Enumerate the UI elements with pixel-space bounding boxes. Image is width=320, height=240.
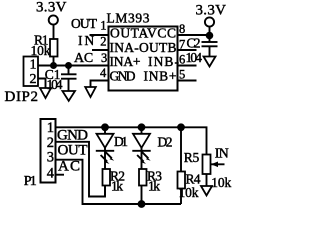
svg-text:IN: IN [78, 33, 95, 48]
wire pin2 stub [92, 49, 109, 51]
svg-text:1: 1 [100, 18, 106, 32]
node label OUT pin1 [71, 16, 107, 32]
svg-text:1: 1 [30, 58, 37, 73]
svg-text:3.3V: 3.3V [36, 0, 67, 15]
power label 3.3V left [36, 0, 67, 15]
node junction R4 rail [177, 123, 185, 131]
svg-text:1: 1 [47, 120, 54, 136]
svg-text:OUT: OUT [58, 143, 88, 159]
node junction D2 rail [138, 123, 146, 131]
pin 7 number [179, 38, 185, 52]
wire 3.3V to R1 [53, 25, 55, 39]
svg-text:IN: IN [215, 147, 229, 162]
svg-text:3: 3 [101, 51, 107, 65]
wire pin1 stub [90, 34, 109, 36]
svg-text:104: 104 [47, 77, 63, 92]
wire DIP2 pin2 [38, 79, 46, 89]
capacitor C1 [45, 66, 77, 93]
wire GND rail top [56, 127, 207, 154]
wire pin7 stub [178, 49, 197, 51]
resistor R2 [103, 151, 126, 197]
power label 3.3V right [196, 3, 227, 19]
svg-text:3: 3 [47, 150, 54, 166]
wire pin6 stub [178, 65, 197, 67]
svg-text:AC: AC [74, 51, 93, 66]
svg-text:4: 4 [100, 66, 107, 80]
wire 3.3V right vertical [209, 27, 211, 42]
ground pin4 [85, 87, 96, 97]
svg-text:2: 2 [100, 34, 106, 48]
svg-text:LM393: LM393 [107, 10, 150, 25]
wire pin4 to ground [91, 81, 109, 88]
svg-text:D2: D2 [158, 135, 173, 150]
ground C1 [62, 91, 75, 101]
svg-text:P1: P1 [24, 174, 37, 189]
node label GND [57, 128, 88, 144]
pin 6 number [179, 53, 185, 67]
diode D2 LED [132, 127, 172, 164]
node label AC pin3 [74, 51, 107, 66]
svg-text:10k: 10k [179, 185, 199, 200]
svg-text:INA+: INA+ [110, 54, 141, 69]
resistor R3 [139, 151, 162, 204]
svg-text:INB+: INB+ [144, 69, 177, 84]
pin 5 number [179, 68, 185, 82]
pin 8 number [179, 22, 185, 36]
node junction R3 rail [138, 200, 146, 208]
wire pin5 stub [178, 80, 197, 82]
svg-text:3.3V: 3.3V [196, 3, 227, 19]
wire AC net horizontal [38, 65, 109, 67]
diode D1 LED [96, 127, 128, 164]
resistor R4 [178, 127, 201, 204]
svg-text:4: 4 [47, 166, 55, 182]
wire AC net bottom [56, 160, 182, 204]
op-amp U1 LM393 [107, 10, 180, 90]
pin 4 number [100, 66, 107, 80]
svg-text:AC: AC [58, 159, 80, 175]
connector DIP2 [5, 57, 39, 106]
svg-text:2: 2 [30, 72, 37, 87]
resistor R1 [31, 33, 58, 58]
svg-text:104: 104 [186, 50, 203, 65]
wire pin4 stub P1 [56, 174, 65, 176]
node junction pin8/C2 [206, 32, 214, 40]
svg-text:OUTAVCC: OUTAVCC [110, 26, 176, 41]
connector P1 [24, 119, 56, 189]
wire OUT net [56, 142, 106, 197]
svg-text:1k: 1k [148, 179, 160, 194]
node label IN [215, 147, 229, 162]
power terminal circle left [49, 15, 58, 24]
node junction D1 rail [101, 123, 109, 131]
svg-text:INA-OUTB: INA-OUTB [110, 40, 177, 55]
node label OUT [58, 143, 88, 159]
svg-text:10k: 10k [211, 175, 231, 190]
power terminal circle right [205, 17, 214, 26]
svg-text:1k: 1k [111, 179, 123, 194]
svg-text:D1: D1 [114, 134, 128, 149]
svg-text:OUT: OUT [71, 16, 98, 31]
svg-text:5: 5 [179, 68, 185, 82]
wire pin8 to 3.3V [178, 34, 210, 36]
svg-text:INB-: INB- [148, 54, 180, 69]
node junction C1/AC [65, 62, 72, 69]
node label AC [58, 159, 80, 175]
capacitor C2 [186, 35, 218, 65]
svg-text:R5: R5 [184, 150, 200, 165]
node label IN pin2 [78, 33, 107, 48]
svg-text:GND: GND [110, 69, 136, 84]
node junction R1/AC [50, 62, 57, 69]
ground C2 [204, 57, 216, 67]
potentiometer R5 [184, 150, 232, 190]
svg-text:C2: C2 [187, 35, 201, 50]
ground DIP2 [40, 88, 51, 98]
ground R5 [201, 186, 212, 196]
wire R1 to AC net [53, 57, 55, 66]
svg-text:DIP2: DIP2 [5, 89, 39, 105]
svg-text:6: 6 [179, 53, 185, 67]
